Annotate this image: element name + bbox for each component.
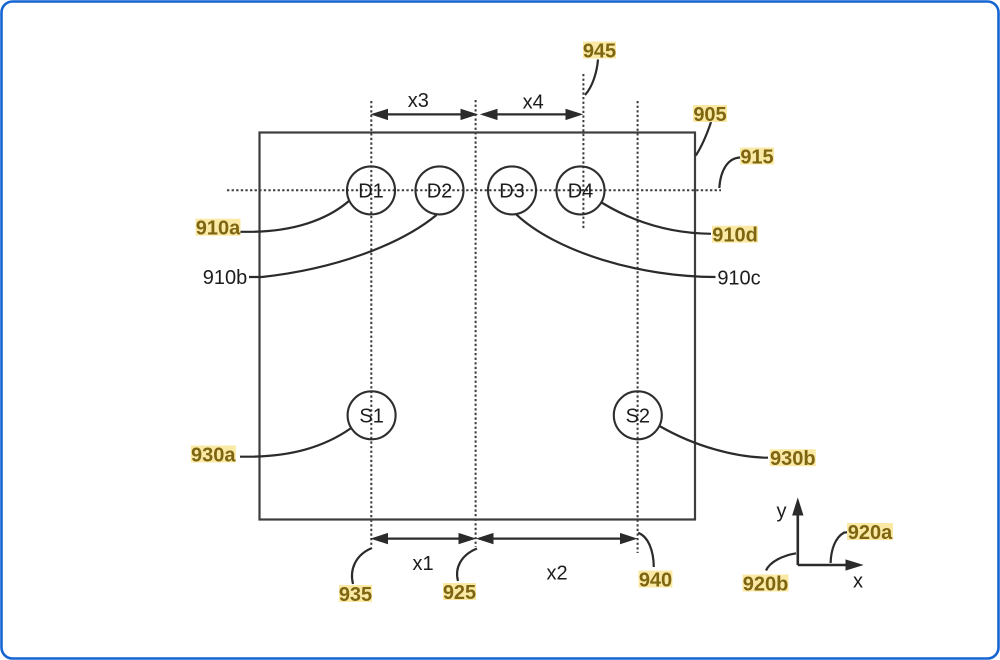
- leader for 920a: [831, 532, 848, 563]
- leader for 930a: [240, 429, 351, 457]
- svg-text:S1: S1: [359, 405, 383, 427]
- svg-text:x1: x1: [412, 553, 433, 575]
- svg-text:940: 940: [639, 569, 672, 591]
- leader for 915: [719, 158, 740, 189]
- highlighted label 910a: [196, 218, 242, 240]
- circle S2: [614, 391, 662, 439]
- leader for 910b: [249, 215, 437, 277]
- vertical dashed line 945 (x=583.4): [582, 74, 584, 229]
- svg-text:920b: 920b: [743, 573, 789, 595]
- leader for 910c: [516, 214, 716, 277]
- circle D3: [488, 166, 536, 214]
- svg-text:x3: x3: [408, 90, 429, 112]
- circle D2: [416, 166, 464, 214]
- svg-text:D2: D2: [427, 180, 453, 202]
- svg-text:910b: 910b: [203, 267, 248, 289]
- highlighted label 930a: [191, 444, 237, 466]
- svg-text:D4: D4: [568, 180, 594, 202]
- highlighted label 935: [339, 584, 372, 606]
- leader for 905: [696, 122, 711, 156]
- vertical centerline through S2 (x=637.6): [637, 101, 639, 553]
- circle D4: [557, 166, 605, 214]
- circle S1: [348, 391, 396, 439]
- highlighted label 940: [639, 569, 673, 591]
- highlighted label 925: [443, 582, 476, 604]
- coordinate axes 920: y axis: [793, 499, 803, 565]
- highlighted label 945: [583, 40, 616, 62]
- svg-text:x: x: [853, 570, 863, 592]
- leader for 930b: [660, 426, 769, 458]
- highlighted label 910d: [712, 225, 758, 247]
- svg-text:y: y: [777, 500, 787, 522]
- dimension arrow x1: [372, 534, 475, 544]
- horizontal centerline through D row (y=190): [227, 189, 721, 191]
- svg-text:925: 925: [443, 582, 476, 604]
- leader for 910a: [240, 201, 350, 232]
- svg-text:905: 905: [693, 104, 726, 126]
- leader for 920b: [766, 553, 796, 570]
- svg-text:910c: 910c: [717, 267, 760, 289]
- highlighted label 915: [740, 146, 774, 168]
- highlighted label 920a: [847, 522, 893, 544]
- highlighted label 920b: [743, 573, 789, 595]
- svg-text:945: 945: [583, 40, 616, 62]
- dimension arrow x3: [372, 109, 477, 119]
- dimension arrow x4: [482, 109, 582, 119]
- leader for 945: [585, 60, 598, 96]
- svg-text:D1: D1: [358, 180, 384, 202]
- device outline box 905: [260, 133, 696, 520]
- svg-text:x4: x4: [523, 91, 544, 113]
- vertical centerline through D1/S1 (x=371): [370, 101, 372, 547]
- svg-text:910d: 910d: [712, 225, 758, 247]
- svg-text:930a: 930a: [191, 444, 236, 466]
- svg-text:D3: D3: [499, 180, 525, 202]
- svg-text:S2: S2: [626, 405, 650, 427]
- svg-text:915: 915: [740, 146, 773, 168]
- circle D1: [347, 166, 395, 214]
- dimension arrow x2: [478, 534, 637, 544]
- highlighted label 930b: [770, 448, 816, 470]
- coordinate axes 920: x axis: [798, 560, 862, 570]
- svg-text:920a: 920a: [848, 522, 893, 544]
- svg-text:x2: x2: [546, 562, 567, 584]
- leader for 910d: [602, 203, 712, 234]
- highlighted label 905: [693, 104, 727, 126]
- svg-text:935: 935: [339, 584, 372, 606]
- svg-text:910a: 910a: [196, 218, 241, 240]
- svg-text:930b: 930b: [770, 448, 816, 470]
- leader for 940: [638, 533, 654, 567]
- leader for 925: [457, 549, 477, 582]
- leader for 935: [352, 548, 372, 584]
- vertical centerline between D2/D3 (x=475.6): [475, 100, 477, 547]
